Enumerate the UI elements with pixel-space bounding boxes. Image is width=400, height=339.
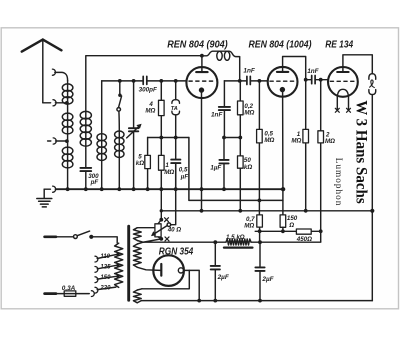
svg-text:REN 804 (1004): REN 804 (1004): [249, 40, 312, 51]
coil L3: [101, 81, 103, 189]
capacitor C2 300pF: [80, 168, 91, 171]
svg-text:W 3 Hans Sachs: W 3 Hans Sachs: [353, 100, 370, 204]
resistor R12 1.5k wirewound: [226, 239, 251, 245]
V2 anode wire: [283, 57, 306, 80]
wire antenna to tap plug: [43, 102, 51, 104]
wire to ground symbol: [43, 189, 45, 197]
resistor R11 450: [296, 229, 311, 234]
transformer secondary S2 HV: [133, 244, 141, 267]
resistor R6 0.5M: [258, 81, 260, 200]
V3 grid: [330, 80, 355, 82]
resistor R7 1M: [305, 80, 307, 211]
ground plug arc: [44, 188, 50, 190]
node C2 ground: [84, 187, 88, 191]
svg-text:2µF: 2µF: [217, 274, 230, 281]
transformer secondary S3 rectifier heater: [133, 290, 141, 303]
resistor R10 150: [280, 215, 286, 227]
svg-text:MΩ: MΩ: [291, 138, 301, 145]
wire rectifier output: [184, 270, 199, 300]
wire L2 top to top bus: [86, 56, 202, 149]
svg-text:2µF: 2µF: [261, 276, 274, 283]
node antenna tap: [65, 101, 69, 105]
wire bias net: [148, 137, 189, 139]
svg-text:1nF: 1nF: [243, 68, 255, 75]
heater bus C: [161, 189, 372, 220]
potentiometer R13 40 ohm: [159, 218, 163, 222]
mains terminal 1: [45, 235, 56, 238]
resistor R3 1M: [160, 138, 162, 190]
capacitor C4 0.5uF: [171, 160, 180, 164]
V2 cathode: [280, 87, 285, 92]
resistor R9 0.7M: [258, 200, 260, 231]
transformer secondary S1 heater: [133, 228, 141, 241]
V1 grid: [189, 80, 215, 82]
antenna coil L1 section 2: [67, 103, 69, 141]
resistor R5 50k: [239, 138, 241, 211]
wire rectifier return: [142, 270, 189, 288]
fuse F1 0.3A: [64, 291, 76, 296]
V3 anode wire to speaker: [343, 55, 372, 74]
bottom bus: [141, 300, 372, 302]
svg-text:1µF: 1µF: [210, 165, 221, 172]
switch S1: [118, 79, 122, 83]
resistor R4 0.2M: [239, 81, 241, 138]
svg-text:MΩ: MΩ: [244, 223, 254, 230]
svg-text:0,5: 0,5: [179, 166, 188, 173]
capacitor C7 1uF: [223, 138, 225, 160]
svg-text:MΩ: MΩ: [264, 137, 274, 144]
terminal A1 top tap arc: [52, 69, 55, 75]
capacitor C8 1nF series: [304, 78, 308, 82]
tap 110: [95, 256, 98, 262]
resistor R1 4M: [159, 79, 163, 83]
V4 anode pip: [178, 268, 183, 273]
svg-text:MΩ: MΩ: [244, 110, 254, 117]
svg-text:RE 134: RE 134: [325, 40, 353, 51]
V4 filament plate: [137, 267, 160, 270]
ground: [37, 199, 52, 207]
svg-text:MΩ: MΩ: [145, 107, 155, 114]
B+ wire: [143, 241, 321, 243]
svg-text:0,3A: 0,3A: [62, 285, 76, 292]
svg-text:1nF: 1nF: [211, 112, 223, 119]
mains switch S2: [74, 235, 78, 239]
heater bus B: [189, 138, 283, 201]
capacitor C1 300pF series: [143, 76, 147, 84]
svg-text:1nF: 1nF: [307, 68, 319, 75]
svg-text:µF: µF: [180, 173, 189, 180]
svg-text:300pF: 300pF: [139, 86, 157, 93]
node lower tap: [65, 139, 69, 143]
capacitor C9 2uF: [214, 242, 216, 266]
transformer core: [127, 226, 130, 300]
capacitor C10 2uF: [259, 242, 261, 267]
wire: [224, 137, 240, 139]
terminal A3 lower tap arc: [48, 140, 51, 142]
V2 grid: [270, 80, 295, 82]
V3 filament: [337, 89, 348, 109]
svg-text:Ω: Ω: [288, 222, 294, 229]
anode choke: [202, 51, 240, 81]
terminal TA pickup jacks: [174, 79, 178, 83]
svg-text:40 Ω: 40 Ω: [167, 227, 182, 234]
svg-text:MΩ: MΩ: [164, 169, 174, 176]
capacitor C5 1nF series: [247, 76, 250, 84]
node L1 bottom on ground bus: [66, 187, 70, 191]
capacitor C6 1nF shunt: [223, 81, 225, 107]
wire right bus: [371, 95, 373, 301]
V1 cathode: [199, 87, 204, 92]
ground bus: [56, 188, 284, 190]
tap 150: [95, 277, 98, 283]
tap 125: [95, 267, 98, 273]
antenna plug arc: [53, 100, 56, 106]
antenna: [22, 40, 62, 52]
tap 220: [95, 287, 98, 293]
svg-text:Lumophon: Lumophon: [334, 158, 344, 206]
svg-text:kΩ: kΩ: [244, 164, 252, 171]
wire bias row: [255, 230, 321, 232]
svg-text:kΩ: kΩ: [136, 160, 144, 167]
transformer primary: [115, 243, 123, 287]
V1 anode: [196, 71, 207, 73]
wire to filter: [260, 231, 321, 242]
variable capacitor C3: [132, 79, 136, 83]
wire L2 bottom to capacitor: [85, 149, 87, 168]
svg-text:REN 804 (904): REN 804 (904): [167, 39, 228, 50]
resistor R8 2M: [320, 80, 322, 232]
wire coupling node: [224, 80, 247, 82]
coil L4: [118, 111, 120, 189]
antenna coil L1 section 3: [67, 141, 69, 189]
loudspeaker jacks L: [369, 74, 376, 80]
grid bus node A: [102, 80, 187, 82]
antenna coil L1 section 1: [67, 81, 69, 103]
resistor R2 5k: [147, 138, 149, 190]
svg-text:pF: pF: [90, 179, 99, 186]
coil L2: [80, 111, 91, 119]
svg-text:MΩ: MΩ: [325, 138, 335, 145]
mains terminal 2: [45, 292, 56, 295]
svg-text:1,5 kΩ: 1,5 kΩ: [226, 234, 245, 241]
